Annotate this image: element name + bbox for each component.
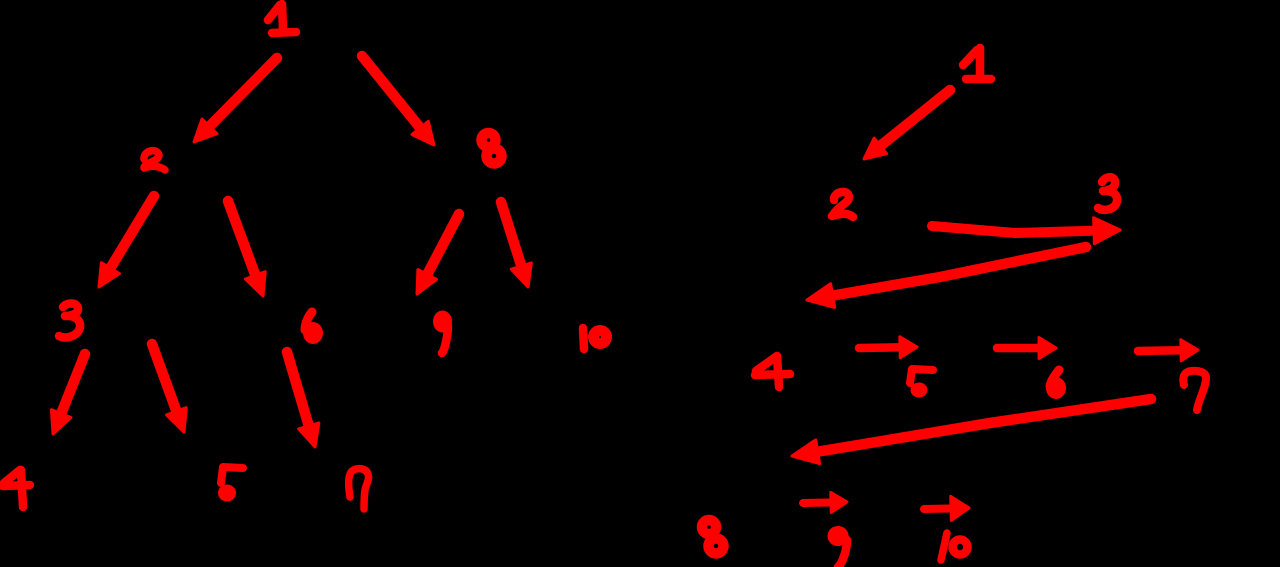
- seq step 3 label: [1098, 177, 1117, 210]
- seq arrow 6->7: [1138, 340, 1198, 361]
- tree edge 1->2: [194, 58, 277, 142]
- tree edge 3->4: [51, 354, 85, 434]
- tree node 1 label: [268, 4, 296, 33]
- seq step 10 label: [941, 533, 968, 560]
- seq step 4 label: [755, 356, 790, 387]
- seq arrow 8->9: [803, 492, 847, 512]
- tree edge 1->8: [362, 56, 434, 145]
- tree node 4 label: [3, 470, 30, 507]
- seq arrow 4->5: [859, 337, 917, 358]
- seq step 1 label: [963, 48, 991, 79]
- tree edge 6->7: [287, 352, 319, 447]
- tree node 3 label: [59, 303, 80, 337]
- tree node 8 label: [482, 133, 502, 164]
- seq step 5 label: [910, 369, 933, 398]
- tree edge 8->9: [417, 214, 459, 294]
- seq arrow 7->8: [792, 399, 1151, 464]
- tree node 2 label: [144, 151, 165, 170]
- seq arrow 5->6: [997, 338, 1056, 359]
- seq step 2 label: [832, 192, 853, 217]
- tree edge 2->3: [99, 196, 154, 287]
- seq arrow 3->4: [807, 247, 1086, 307]
- tree node 10 label: [583, 328, 607, 349]
- seq arrow 2->3: [932, 218, 1120, 244]
- seq step 7 label: [1183, 371, 1206, 410]
- tree node 9 label: [433, 311, 452, 354]
- tree node 6 label: [303, 312, 323, 344]
- seq arrow 1->2: [864, 90, 950, 159]
- seq step 8 label: [702, 520, 724, 554]
- seq step 6 label: [1046, 370, 1066, 399]
- seq step 9 label: [828, 526, 849, 567]
- tree node 5 label: [218, 467, 243, 502]
- tree edge 2->6: [228, 201, 265, 296]
- tree edge 8->10: [501, 202, 531, 287]
- seq arrow 9->10: [924, 496, 969, 520]
- tree node 7 label: [349, 469, 369, 509]
- tree edge 3->5: [152, 344, 186, 432]
